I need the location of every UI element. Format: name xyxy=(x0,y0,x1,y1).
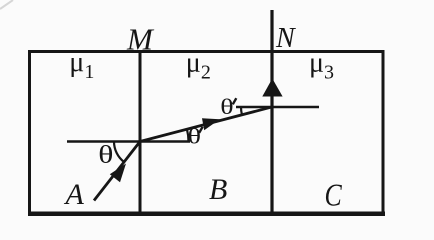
refracted ray in B xyxy=(140,107,273,142)
normal line at M xyxy=(67,140,190,143)
svg-text:N: N xyxy=(275,23,296,54)
svg-text:A: A xyxy=(64,178,85,211)
incident ray from A xyxy=(94,142,140,201)
svg-text:C: C xyxy=(325,178,343,213)
faint scan mark top-left xyxy=(0,0,13,9)
svg-text:θ: θ xyxy=(188,125,201,149)
box border (three media container) xyxy=(30,52,384,214)
normal line at N xyxy=(236,106,319,109)
svg-text:B: B xyxy=(209,173,227,206)
angle arc theta-prime at M xyxy=(187,129,189,141)
prime tick of theta-prime at N xyxy=(233,98,237,104)
svg-text:M: M xyxy=(126,22,155,57)
svg-text:θ: θ xyxy=(98,141,113,169)
interface line M xyxy=(139,52,142,214)
interface line N xyxy=(270,10,273,214)
angle arc theta-prime at N xyxy=(241,107,242,115)
prime tick of theta-prime at M xyxy=(199,127,202,133)
box bottom border thick xyxy=(28,211,385,216)
svg-text:θ: θ xyxy=(220,95,233,119)
arrowhead refracted ray xyxy=(202,118,220,130)
arrowhead incident ray xyxy=(110,164,126,183)
angle arc theta xyxy=(114,142,124,163)
emergent ray arrowhead (up along N) xyxy=(262,79,282,97)
